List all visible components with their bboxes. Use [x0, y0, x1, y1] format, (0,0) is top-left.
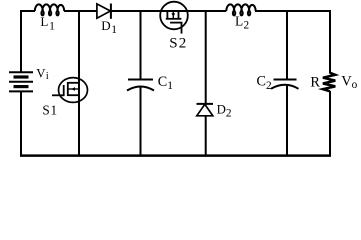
wire D2 branch upper [205, 11, 207, 104]
capacitor C1 [128, 79, 153, 81]
wire right rail upper [329, 10, 331, 74]
wire D2 branch lower [205, 116, 207, 156]
wire C1 branch upper [140, 11, 142, 80]
wire top rail between D1 and L2 (passes through S2) [111, 10, 226, 12]
wire bottom rail [20, 154, 331, 157]
wire C2 branch lower [286, 85, 288, 156]
wire left rail lower [20, 91, 22, 156]
wire top rail right segment [255, 10, 330, 12]
diode D2 [197, 103, 214, 105]
svg-text:R: R [310, 74, 320, 90]
battery source Vi [9, 71, 33, 73]
switch S2 (MOSFET in circle) [160, 2, 188, 30]
wire top rail left segment [21, 10, 35, 12]
diode D1 [97, 4, 111, 18]
resistor R [323, 73, 335, 92]
wire top rail between L1 and S1 node [64, 10, 97, 12]
capacitor C2 [274, 79, 297, 81]
wire C2 branch upper [286, 11, 288, 80]
wire S1 branch [78, 11, 80, 156]
svg-text:S1: S1 [42, 102, 58, 117]
inductor L2 [226, 4, 255, 15]
wire right rail lower [329, 91, 331, 157]
wire C1 branch lower [140, 87, 142, 157]
svg-text:S2: S2 [169, 35, 187, 51]
wire left rail upper [20, 10, 22, 72]
inductor L1 [35, 4, 64, 15]
switch S1 (MOSFET in ellipse) [59, 78, 88, 103]
